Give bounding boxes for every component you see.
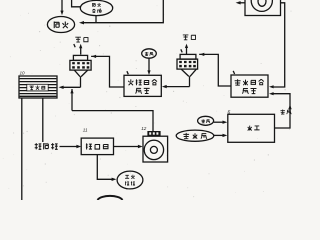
arrow: top fan exhaust left [240,2,245,4]
wire: aspirator bottom to process ellipse [97,155,112,180]
label tick 8 [74,44,75,47]
fan 12: rotor [144,140,163,159]
wire: evaporator bottom right drop to coarse particles [42,98,44,142]
svg-text:11: 11 [83,128,88,133]
label: coarse particles 粗颗粒 [35,143,42,149]
wire: air into cooler top [148,58,150,70]
svg-text:10: 10 [20,71,26,76]
smudge: partial ellipse at bottom edge [98,196,123,200]
arrow: coarse particles to aspirator [60,146,78,148]
box: top fan (cut off at top edge) [245,0,281,16]
cyclone C2: body with holes [177,59,198,69]
arrow: natural gas into furnace [214,134,224,136]
wire: cyclone C1 inlet from cooler [91,56,124,87]
arrow: air into furnace [214,121,224,123]
ellipse: azeotrope 降沸合物 [80,0,112,15]
top fan rotor [251,0,272,11]
wire: overhead return line into waste water [84,0,163,23]
label tick 4 [127,71,128,74]
svg-text:12: 12 [141,126,147,131]
box: dryer and fan 干燥器和风扇 [231,75,268,97]
label: air 空气 (on riser) [280,110,284,114]
label: outlet 出口 (left) [75,37,81,42]
evaporator label window 蒸发器 [27,84,48,91]
cyclone C1: lid [73,55,87,60]
label tick 5 [233,71,234,74]
wire: furnace hot gas riser to dryer right lower port [273,94,290,128]
box: aspirator 抽吸器 [81,138,113,155]
wire: cyclone C2 underflow stem [189,76,191,86]
wire: top feed into waste-water ellipse [61,0,63,11]
evaporator: striped body [19,76,57,98]
fan 12: housing [143,136,168,162]
arrow: aspirator to fan 12 [114,146,139,148]
scan speckle texture [97,31,98,32]
cyclone C1: body with holes [70,60,91,70]
ellipse: waste water 废水 [47,17,74,33]
label: outlet 出口 (right) [183,35,189,40]
wire: cyclone C2 inlet from dryer [199,54,231,86]
cyclone C2: funnel [181,69,196,76]
fan 12: inlet grille [147,131,160,136]
wire: riser from fan 12 joining underflow line [71,89,73,111]
arrow: cyclone 2 underflow into cooler [166,86,190,88]
wire: top fan to dryer right upper port [273,3,284,87]
arrow: underflow into evaporator [63,86,81,88]
wire: evaporator bottom left drop [21,98,23,200]
wire: azeotrope ellipse drop to return line [95,15,97,22]
cyclone C1: funnel [74,70,87,77]
box: cooler and fan 冷却器和风扇 [124,75,161,96]
ellipse: air 空气 (left small) [142,49,157,58]
ellipse: to process 工艺技术 [117,171,143,189]
ellipse: air 空气 (right small) [198,116,214,125]
box: furnace 炉子 [228,114,275,142]
cyclone C2: lid [180,54,196,59]
arrow: cyclone 2 vent up to outlet [186,48,188,55]
wire: top feed into azeotrope ellipse [72,0,81,7]
label tick 9 [181,49,182,52]
ellipse: natural gas 天然气 [176,130,214,141]
wire: cyclone C1 underflow stem [80,76,82,87]
arrow: cyclone 1 vent up to outlet [80,48,82,55]
